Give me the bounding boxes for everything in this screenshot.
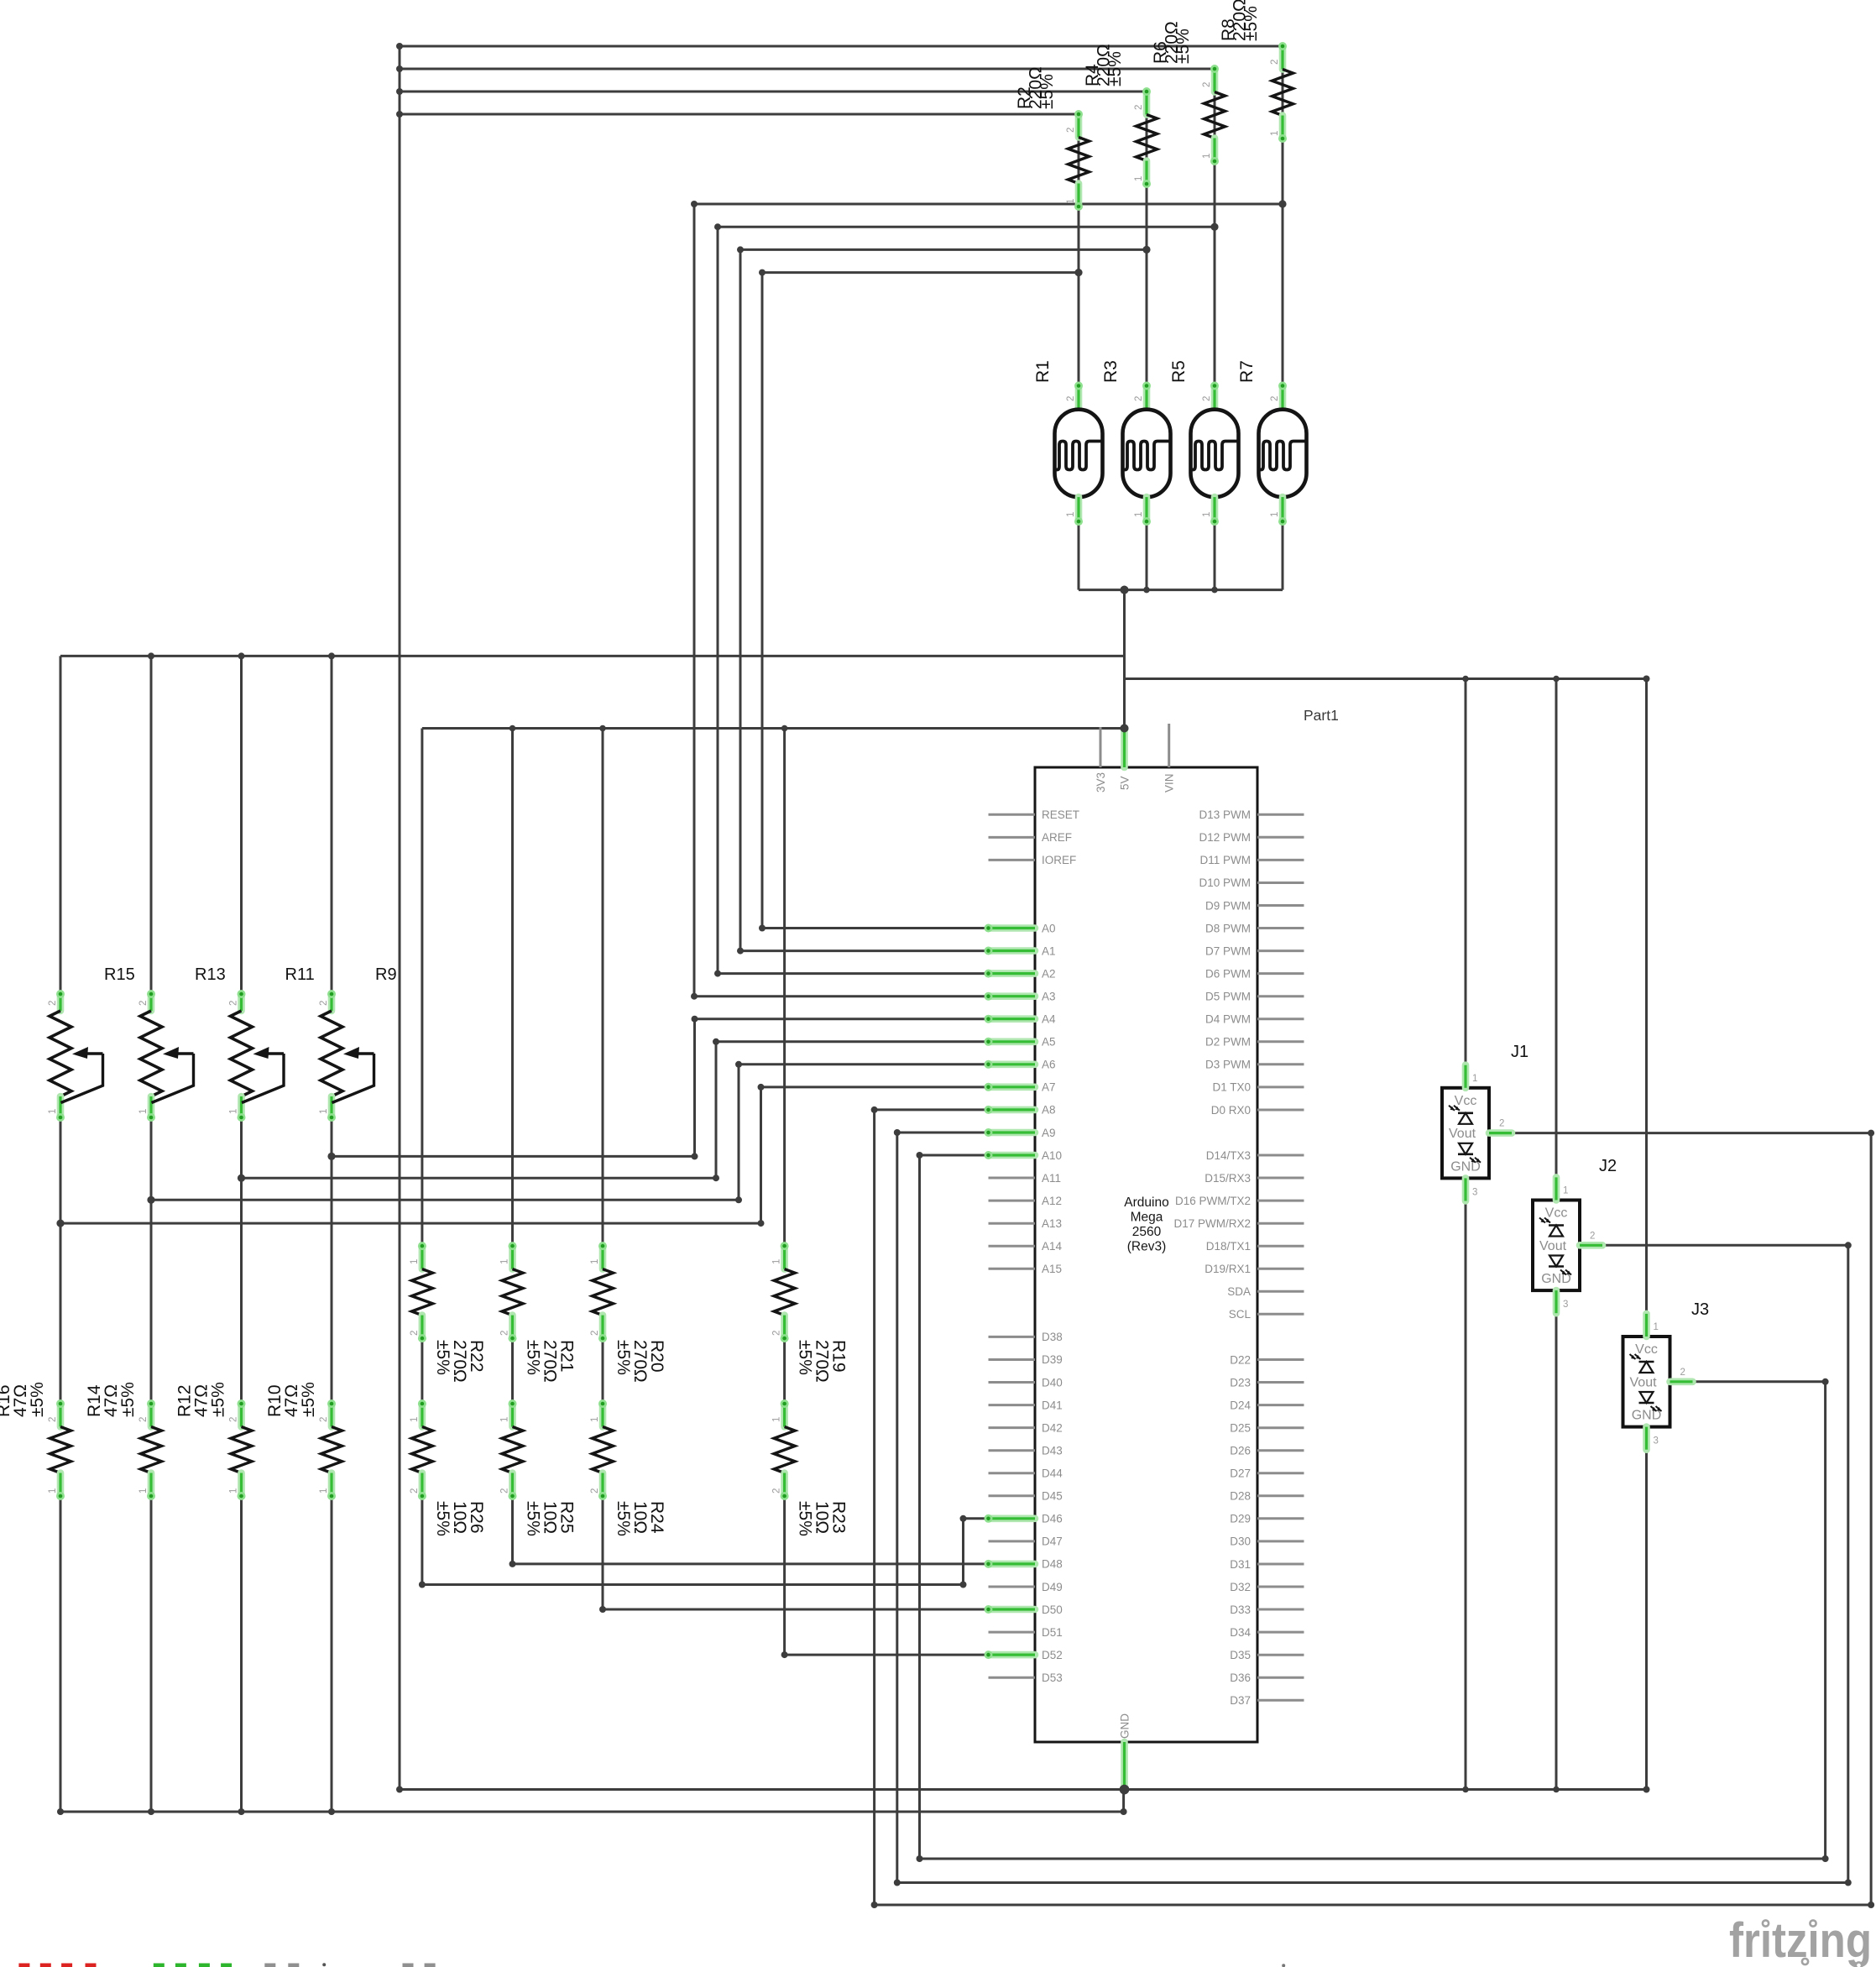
- svg-text:±5%: ±5%: [433, 1340, 452, 1375]
- svg-text:3: 3: [1654, 1436, 1659, 1446]
- svg-text:R5: R5: [1169, 360, 1189, 383]
- svg-text:2: 2: [500, 1331, 510, 1336]
- svg-text:AREF: AREF: [1042, 831, 1072, 844]
- svg-text:SCL: SCL: [1229, 1308, 1252, 1321]
- svg-text:D51: D51: [1042, 1626, 1063, 1639]
- svg-text:Vcc: Vcc: [1455, 1094, 1477, 1108]
- svg-text:5V: 5V: [1118, 776, 1131, 790]
- svg-text:A7: A7: [1042, 1081, 1056, 1094]
- svg-text:D53: D53: [1042, 1671, 1063, 1684]
- svg-text:1: 1: [229, 1109, 239, 1114]
- svg-text:A9: A9: [1042, 1127, 1056, 1139]
- svg-text:D25: D25: [1230, 1422, 1251, 1435]
- svg-text:A5: A5: [1042, 1036, 1056, 1049]
- svg-text:D32: D32: [1230, 1581, 1251, 1593]
- svg-text:D18/TX1: D18/TX1: [1206, 1240, 1251, 1253]
- svg-text:1: 1: [590, 1417, 600, 1422]
- svg-text:±5%: ±5%: [28, 1382, 47, 1417]
- svg-text:±5%: ±5%: [796, 1340, 815, 1375]
- svg-text:1: 1: [1563, 1186, 1568, 1196]
- svg-text:D22: D22: [1230, 1353, 1251, 1366]
- svg-text:1: 1: [1202, 154, 1212, 159]
- svg-text:J2: J2: [1599, 1157, 1617, 1175]
- svg-text:2: 2: [229, 1417, 239, 1422]
- svg-text:D37: D37: [1230, 1694, 1251, 1707]
- svg-text:D38: D38: [1042, 1331, 1063, 1343]
- svg-text:1: 1: [772, 1417, 782, 1422]
- svg-text:D33: D33: [1230, 1603, 1251, 1616]
- svg-text:Vout: Vout: [1539, 1239, 1567, 1253]
- svg-text:±5%: ±5%: [614, 1340, 633, 1375]
- svg-text:2: 2: [590, 1488, 600, 1494]
- svg-text:2: 2: [319, 1001, 329, 1006]
- svg-text:fritzing: fritzing: [1729, 1913, 1872, 1967]
- svg-text:GND: GND: [1118, 1713, 1131, 1739]
- svg-text:D49: D49: [1042, 1581, 1063, 1593]
- svg-text:D19/RX1: D19/RX1: [1205, 1263, 1251, 1275]
- svg-text:R15: R15: [104, 965, 135, 984]
- svg-text:A4: A4: [1042, 1013, 1056, 1026]
- svg-text:IOREF: IOREF: [1042, 854, 1076, 866]
- svg-text:R7: R7: [1237, 360, 1257, 383]
- svg-text:D0 RX0: D0 RX0: [1211, 1104, 1251, 1117]
- svg-text:D47: D47: [1042, 1535, 1063, 1548]
- svg-text:2: 2: [1270, 60, 1280, 65]
- svg-text:R1: R1: [1033, 360, 1053, 383]
- svg-text:A10: A10: [1042, 1149, 1062, 1162]
- svg-text:1: 1: [590, 1259, 600, 1264]
- svg-text:1: 1: [319, 1109, 329, 1114]
- svg-text:3: 3: [1472, 1187, 1477, 1197]
- svg-text:D1 TX0: D1 TX0: [1212, 1081, 1251, 1094]
- svg-text:1: 1: [138, 1488, 149, 1494]
- svg-text:2560: 2560: [1132, 1225, 1162, 1239]
- svg-text:1: 1: [1270, 131, 1280, 136]
- svg-text:D16 PWM/TX2: D16 PWM/TX2: [1175, 1195, 1251, 1207]
- svg-text:Arduino: Arduino: [1124, 1195, 1168, 1210]
- svg-text:Vcc: Vcc: [1545, 1206, 1568, 1221]
- svg-text:D11 PWM: D11 PWM: [1199, 854, 1251, 866]
- svg-text:1: 1: [48, 1109, 58, 1114]
- svg-text:D45: D45: [1042, 1490, 1063, 1503]
- svg-text:D41: D41: [1042, 1399, 1063, 1411]
- svg-text:±5%: ±5%: [209, 1382, 228, 1417]
- svg-text:A13: A13: [1042, 1217, 1062, 1230]
- svg-text:1: 1: [500, 1417, 510, 1422]
- svg-text:J3: J3: [1691, 1300, 1709, 1319]
- svg-text:±5%: ±5%: [433, 1501, 452, 1536]
- svg-text:(Rev3): (Rev3): [1127, 1240, 1167, 1254]
- svg-text:1: 1: [1472, 1074, 1477, 1084]
- svg-text:A8: A8: [1042, 1104, 1056, 1117]
- svg-text:2: 2: [48, 1417, 58, 1422]
- svg-text:2: 2: [1202, 396, 1212, 401]
- svg-text:Part1: Part1: [1304, 707, 1339, 724]
- svg-text:3V3: 3V3: [1095, 772, 1107, 793]
- svg-text:2: 2: [1270, 396, 1280, 401]
- svg-text:D44: D44: [1042, 1467, 1063, 1480]
- svg-text:1: 1: [1066, 199, 1076, 204]
- svg-text:A3: A3: [1042, 991, 1056, 1003]
- svg-text:Vcc: Vcc: [1635, 1342, 1658, 1357]
- svg-text:2: 2: [1066, 396, 1076, 401]
- svg-text:2: 2: [1202, 82, 1212, 87]
- svg-text:±5%: ±5%: [796, 1501, 815, 1536]
- svg-text:D17 PWM/RX2: D17 PWM/RX2: [1173, 1217, 1251, 1230]
- svg-text:±5%: ±5%: [1173, 29, 1193, 64]
- svg-text:Vout: Vout: [1449, 1127, 1476, 1141]
- svg-text:D6 PWM: D6 PWM: [1205, 967, 1251, 980]
- svg-text:2: 2: [772, 1331, 782, 1336]
- svg-text:D26: D26: [1230, 1445, 1251, 1457]
- svg-text:A6: A6: [1042, 1059, 1056, 1071]
- svg-text:D36: D36: [1230, 1671, 1251, 1684]
- svg-text:D29: D29: [1230, 1513, 1251, 1525]
- svg-text:±5%: ±5%: [1037, 74, 1057, 109]
- svg-text:A2: A2: [1042, 967, 1056, 980]
- svg-text:1: 1: [319, 1488, 329, 1494]
- svg-text:1: 1: [500, 1259, 510, 1264]
- svg-text:1: 1: [1134, 512, 1144, 517]
- svg-text:2: 2: [138, 1417, 149, 1422]
- svg-text:D35: D35: [1230, 1649, 1251, 1661]
- svg-text:1: 1: [772, 1259, 782, 1264]
- svg-text:D34: D34: [1230, 1626, 1251, 1639]
- svg-text:D52: D52: [1042, 1649, 1063, 1661]
- svg-text:1: 1: [1202, 512, 1212, 517]
- svg-text:1: 1: [1270, 512, 1280, 517]
- svg-text:2: 2: [1134, 396, 1144, 401]
- svg-text:A12: A12: [1042, 1195, 1062, 1207]
- svg-text:±5%: ±5%: [1105, 51, 1125, 86]
- svg-text:D39: D39: [1042, 1353, 1063, 1366]
- svg-text:±5%: ±5%: [118, 1382, 138, 1417]
- svg-text:2: 2: [410, 1488, 420, 1494]
- svg-text:D48: D48: [1042, 1558, 1063, 1571]
- svg-text:Mega: Mega: [1131, 1211, 1163, 1225]
- svg-text:2: 2: [1499, 1119, 1504, 1129]
- svg-text:Vout: Vout: [1630, 1375, 1658, 1389]
- svg-text:D14/TX3: D14/TX3: [1206, 1149, 1251, 1162]
- svg-text:±5%: ±5%: [614, 1501, 633, 1536]
- svg-text:3: 3: [1563, 1300, 1568, 1310]
- svg-text:A15: A15: [1042, 1263, 1062, 1275]
- svg-text:±5%: ±5%: [299, 1382, 318, 1417]
- svg-text:D5 PWM: D5 PWM: [1205, 991, 1251, 1003]
- svg-text:1: 1: [1066, 512, 1076, 517]
- svg-text:D2 PWM: D2 PWM: [1205, 1036, 1251, 1049]
- svg-text:D43: D43: [1042, 1445, 1063, 1457]
- svg-text:±5%: ±5%: [1241, 6, 1261, 41]
- svg-text:D24: D24: [1230, 1399, 1251, 1411]
- svg-text:2: 2: [410, 1331, 420, 1336]
- svg-text:R11: R11: [285, 965, 315, 984]
- svg-text:1: 1: [48, 1488, 58, 1494]
- svg-text:D13 PWM: D13 PWM: [1199, 808, 1251, 821]
- svg-text:R9: R9: [375, 965, 397, 984]
- svg-text:2: 2: [590, 1331, 600, 1336]
- svg-text:D42: D42: [1042, 1421, 1063, 1434]
- svg-text:2: 2: [1066, 128, 1076, 133]
- svg-text:D31: D31: [1230, 1558, 1251, 1571]
- svg-text:D27: D27: [1230, 1467, 1251, 1480]
- svg-text:2: 2: [1590, 1231, 1595, 1241]
- svg-text:1: 1: [229, 1488, 239, 1494]
- svg-text:D28: D28: [1230, 1490, 1251, 1503]
- svg-text:±5%: ±5%: [524, 1340, 543, 1375]
- svg-text:J1: J1: [1511, 1043, 1528, 1061]
- svg-text:D7 PWM: D7 PWM: [1205, 944, 1251, 957]
- svg-text:D9 PWM: D9 PWM: [1205, 899, 1251, 912]
- svg-text:D30: D30: [1230, 1535, 1251, 1548]
- svg-text:2: 2: [138, 1001, 149, 1006]
- svg-text:A11: A11: [1042, 1172, 1061, 1185]
- svg-text:R3: R3: [1101, 360, 1121, 383]
- svg-text:D12 PWM: D12 PWM: [1199, 831, 1251, 844]
- svg-text:2: 2: [319, 1417, 329, 1422]
- svg-text:D4 PWM: D4 PWM: [1205, 1013, 1251, 1026]
- svg-text:1: 1: [410, 1417, 420, 1422]
- svg-text:RESET: RESET: [1042, 808, 1079, 821]
- svg-text:D46: D46: [1042, 1513, 1063, 1525]
- svg-text:1: 1: [1134, 176, 1144, 181]
- svg-text:1: 1: [138, 1109, 149, 1114]
- svg-text:R13: R13: [195, 965, 226, 984]
- svg-text:2: 2: [500, 1488, 510, 1494]
- svg-text:±5%: ±5%: [524, 1501, 543, 1536]
- svg-text:SDA: SDA: [1227, 1285, 1251, 1298]
- svg-text:D15/RX3: D15/RX3: [1205, 1172, 1251, 1185]
- svg-text:1: 1: [410, 1259, 420, 1264]
- svg-text:2: 2: [1134, 105, 1144, 110]
- svg-text:D10 PWM: D10 PWM: [1199, 876, 1251, 889]
- svg-text:2: 2: [1680, 1368, 1685, 1378]
- svg-text:1: 1: [1654, 1322, 1659, 1332]
- svg-text:D40: D40: [1042, 1376, 1063, 1389]
- svg-text:A0: A0: [1042, 922, 1056, 934]
- svg-text:D3 PWM: D3 PWM: [1205, 1059, 1251, 1071]
- svg-text:D23: D23: [1230, 1376, 1251, 1389]
- svg-text:VIN: VIN: [1163, 773, 1176, 793]
- svg-text:2: 2: [772, 1488, 782, 1494]
- svg-text:A14: A14: [1042, 1240, 1063, 1253]
- svg-text:D50: D50: [1042, 1603, 1063, 1616]
- svg-text:D8 PWM: D8 PWM: [1205, 922, 1251, 934]
- svg-text:2: 2: [229, 1001, 239, 1006]
- svg-text:A1: A1: [1042, 944, 1056, 957]
- svg-text:2: 2: [48, 1001, 58, 1006]
